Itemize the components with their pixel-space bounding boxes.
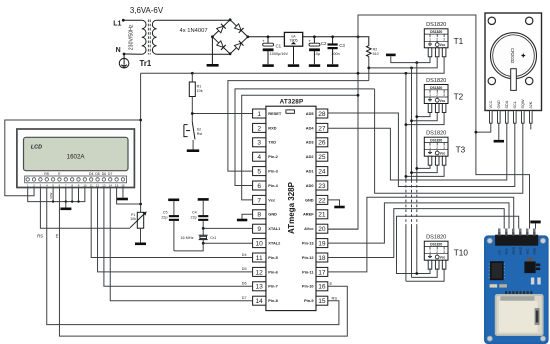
wire bridge minus to ground: [211, 37, 213, 64]
svg-text:12: 12: [256, 269, 264, 276]
label 230V/50Hz: [129, 24, 135, 50]
svg-text:DS1820: DS1820: [426, 235, 446, 241]
svg-text:DS1820: DS1820: [430, 30, 442, 34]
IC U1 ATmega328P body: [266, 106, 316, 310]
svg-text:8: 8: [257, 212, 261, 219]
svg-text:T10: T10: [454, 248, 469, 257]
svg-text:100n: 100n: [331, 52, 339, 56]
svg-text:MOSI: MOSI: [512, 247, 516, 255]
wire +5V down branch: [327, 37, 358, 229]
switch S2: [184, 122, 202, 149]
svg-text:MISO: MISO: [519, 246, 523, 254]
label T10: [454, 248, 469, 257]
svg-text:Pin-5: Pin-5: [268, 255, 278, 260]
pin 5 Pin-3: [253, 167, 279, 176]
svg-text:10k: 10k: [197, 89, 203, 93]
svg-text:19: 19: [318, 241, 326, 248]
svg-text:25: 25: [318, 154, 326, 161]
pin 14 Pin-8: [253, 296, 279, 305]
labels RS E below LCD: [37, 234, 58, 239]
svg-text:C1: C1: [276, 44, 282, 49]
junction dots power rail: [267, 35, 360, 38]
SD card module: [484, 229, 549, 344]
terminal N: [116, 47, 126, 55]
svg-text:AVcc: AVcc: [304, 226, 314, 231]
svg-text:3: 3: [257, 140, 261, 147]
wire SD pin4 to sensor GND bus: [397, 216, 519, 273]
svg-text:AD1: AD1: [306, 169, 315, 174]
svg-text:11: 11: [256, 255, 263, 262]
svg-text:AD0: AD0: [306, 183, 314, 188]
svg-text:RS: RS: [332, 295, 338, 300]
label T3: [456, 145, 466, 154]
wire +5V to LCD wrap: [139, 73, 142, 212]
svg-text:VCC: VCC: [489, 100, 493, 108]
svg-text:DS1820: DS1820: [426, 131, 446, 137]
svg-text:RS: RS: [44, 172, 49, 176]
pin 19 Pin-13: [302, 239, 328, 248]
wire secondary bottom to bridge: [157, 53, 231, 55]
wire pin 18 to SD pin1: [328, 209, 505, 258]
label E right: [330, 281, 333, 286]
label 3.6VA-6V: [130, 6, 164, 15]
svg-text:SQW: SQW: [521, 99, 525, 108]
svg-text:CR2032: CR2032: [510, 48, 515, 64]
sensor bus GND: [416, 63, 418, 274]
label C1: [270, 44, 289, 57]
svg-text:L1: L1: [113, 20, 121, 27]
svg-text:GND: GND: [268, 212, 277, 217]
capacitor C4: [191, 198, 209, 228]
svg-text:1: 1: [429, 146, 431, 150]
pin 4 Pin-2: [253, 152, 279, 161]
svg-text:6: 6: [257, 183, 261, 190]
svg-text:2: 2: [436, 146, 438, 150]
pin 17 Pin-11: [302, 267, 328, 276]
label T1: [454, 37, 464, 46]
svg-text:D5: D5: [242, 267, 247, 271]
wire SCL pin 28 to RTC: [328, 113, 515, 187]
svg-text:1: 1: [257, 111, 261, 118]
wire +5V main rail: [248, 37, 369, 46]
svg-text:GND: GND: [533, 247, 537, 255]
svg-text:C5: C5: [163, 210, 168, 214]
pin 3 TXD: [253, 138, 277, 147]
ground bar P1: [135, 243, 146, 246]
pin 23 AD0: [306, 181, 328, 190]
pin 20 AVcc: [304, 224, 328, 233]
svg-text:SDA: SDA: [505, 100, 509, 108]
svg-text:Pin-9: Pin-9: [304, 298, 314, 303]
wire primary bottom: [124, 53, 142, 55]
svg-text:Rst: Rst: [197, 132, 202, 136]
svg-text:1000µ/16V: 1000µ/16V: [270, 52, 289, 56]
svg-text:D6: D6: [242, 282, 247, 286]
resistor R1: [189, 73, 202, 122]
ground bar SD: [530, 221, 540, 229]
svg-text:22p: 22p: [191, 216, 197, 220]
terminal L1: [113, 19, 125, 28]
svg-text:Pin-3: Pin-3: [268, 169, 278, 174]
svg-text:E: E: [56, 234, 59, 239]
crystal Cr1: [199, 228, 208, 243]
svg-text:13: 13: [256, 284, 264, 291]
svg-text:Vcc: Vcc: [268, 197, 276, 202]
label Tr1: [140, 59, 152, 68]
wire SQW to RTC: [375, 89, 523, 193]
wire LCD backlight A: [117, 188, 141, 205]
pin 24 AD1: [306, 167, 328, 176]
svg-text:4: 4: [257, 154, 261, 161]
svg-text:Pin-12: Pin-12: [302, 255, 315, 260]
RTC module DS3231: [485, 13, 542, 123]
svg-text:AD4: AD4: [306, 125, 315, 130]
svg-text:3,6VA-6V: 3,6VA-6V: [130, 6, 164, 15]
svg-text:24: 24: [318, 169, 326, 176]
svg-text:10k: 10k: [130, 217, 136, 221]
svg-text:DS1820: DS1820: [430, 243, 442, 247]
wire GND row T1: [415, 57, 430, 64]
svg-text:10µ: 10µ: [314, 52, 321, 56]
wire XTAL2 node: [202, 242, 253, 245]
LCD module 1602A: [17, 129, 134, 188]
label T2: [454, 93, 464, 102]
capacitor C3: [328, 37, 338, 65]
svg-text:16 MHz: 16 MHz: [180, 236, 193, 240]
potentiometer P1: [130, 211, 147, 242]
svg-text:10: 10: [83, 184, 87, 188]
svg-text:D5: D5: [95, 172, 99, 176]
svg-text:GND: GND: [305, 197, 314, 202]
svg-text:T3: T3: [456, 145, 466, 154]
svg-text:15: 15: [318, 298, 326, 305]
ground bar 7805: [288, 64, 299, 67]
wire secondary top to bridge: [157, 19, 231, 21]
pin 8 GND: [253, 210, 278, 219]
label R/W: [49, 193, 53, 199]
ground bar RTC: [494, 140, 504, 143]
svg-text:23: 23: [318, 183, 326, 190]
transformer Tr1: [142, 20, 157, 55]
svg-text:T2: T2: [454, 93, 464, 102]
svg-text:XTAL2: XTAL2: [268, 241, 281, 246]
svg-text:2: 2: [436, 250, 438, 254]
wire D4: [91, 188, 252, 258]
svg-text:11: 11: [90, 184, 93, 188]
wire R1 to pin1: [191, 112, 253, 115]
svg-text:13: 13: [102, 184, 106, 188]
svg-text:XTAL1: XTAL1: [268, 226, 281, 231]
pin 15 Pin-9: [304, 296, 328, 305]
svg-text:1: 1: [429, 37, 431, 41]
svg-text:R/W: R/W: [49, 193, 53, 199]
regulator U1 7805: [284, 32, 302, 64]
svg-text:17: 17: [318, 269, 326, 276]
svg-text:RXD: RXD: [268, 125, 276, 130]
ground bar LCD K: [117, 198, 128, 201]
svg-text:Pin-7: Pin-7: [268, 284, 278, 289]
wire pin 16 E: [59, 188, 347, 337]
svg-text:3: 3: [443, 93, 445, 97]
svg-text:DS1820: DS1820: [426, 78, 446, 84]
wire primary top: [123, 19, 142, 21]
svg-text:22p: 22p: [161, 216, 167, 220]
svg-text:DS1820: DS1820: [426, 22, 446, 28]
wire LCD VO to P1: [40, 188, 130, 229]
pin 26 AD3: [306, 138, 328, 147]
pin 6 Pin-4: [253, 181, 279, 190]
svg-text:18: 18: [318, 255, 326, 262]
wire wrap to pin 5 DQ: [228, 81, 369, 172]
svg-text:2: 2: [436, 93, 438, 97]
svg-text:16: 16: [121, 184, 125, 188]
pin 9 XTAL1: [253, 224, 282, 233]
label AT328P: [280, 98, 304, 105]
svg-text:ATmega 328P: ATmega 328P: [287, 181, 296, 234]
wire D5: [98, 188, 253, 272]
svg-text:+: +: [262, 38, 265, 43]
capacitor C5: [161, 199, 179, 251]
svg-text:3: 3: [443, 250, 445, 254]
wire +5V top wrap to modules: [358, 15, 530, 229]
wire AVcc pin 20: [328, 228, 358, 230]
wire Vcc row T1: [405, 57, 445, 75]
svg-text:28: 28: [318, 111, 326, 118]
svg-text:Pin-8: Pin-8: [268, 298, 278, 303]
svg-text:C2: C2: [321, 41, 327, 46]
wire +5V rail B: [141, 72, 406, 74]
svg-text:T1: T1: [454, 37, 464, 46]
svg-text:DS1820: DS1820: [430, 139, 442, 143]
svg-text:Tr1: Tr1: [140, 59, 152, 68]
labels D4-D7 at IC: [242, 253, 247, 300]
label C3: [331, 43, 345, 56]
pin 11 Pin-5: [253, 253, 279, 262]
wire LCD VDD wrap: [5, 120, 141, 196]
label RS right: [332, 295, 338, 300]
wire D7: [110, 188, 252, 301]
svg-text:2: 2: [436, 37, 438, 41]
svg-text:3: 3: [443, 37, 445, 41]
svg-text:D7: D7: [242, 296, 247, 300]
label 16 MHz: [180, 236, 193, 240]
svg-text:Vcc: Vcc: [440, 256, 446, 260]
svg-text:20: 20: [318, 226, 326, 233]
pin 13 Pin-7: [253, 282, 278, 291]
svg-text:CS: CS: [498, 250, 502, 254]
svg-text:7: 7: [257, 197, 261, 204]
svg-text:16: 16: [318, 284, 326, 291]
resistor R2: [367, 46, 379, 57]
svg-text:D7: D7: [108, 172, 112, 176]
pin 25 AD2: [306, 152, 328, 161]
svg-text:Pin-6: Pin-6: [268, 269, 278, 274]
earth ground symbol: [119, 54, 129, 68]
wire LCD ground rail: [28, 188, 85, 208]
svg-text:C3: C3: [339, 43, 345, 48]
wire LCD backlight K: [122, 188, 124, 198]
svg-text:AD2: AD2: [306, 154, 315, 159]
capacitor C1: [262, 37, 274, 65]
svg-text:VCC: VCC: [526, 247, 530, 254]
ground bar C3: [327, 64, 338, 67]
pin 18 Pin-12: [302, 253, 328, 262]
svg-text:AREF: AREF: [303, 212, 314, 217]
svg-text:D4: D4: [242, 253, 247, 257]
label 4x 1N4007: [180, 28, 208, 34]
ground stub pin 8: [237, 214, 253, 221]
svg-text:Pin-4: Pin-4: [268, 183, 278, 188]
svg-text:21: 21: [318, 212, 326, 219]
svg-text:1602A: 1602A: [67, 154, 86, 161]
svg-text:1: 1: [429, 93, 431, 97]
svg-text:2: 2: [257, 125, 261, 132]
wire DQ row T1: [367, 57, 437, 69]
label Cr1: [210, 236, 216, 240]
wire RTC VCC tap: [475, 123, 491, 133]
svg-text:22: 22: [318, 197, 326, 204]
svg-text:Pin-2: Pin-2: [268, 154, 278, 159]
ground bar S2: [187, 149, 199, 152]
wire SDA pin 27 to RTC: [328, 123, 507, 180]
svg-text:LCD: LCD: [31, 144, 42, 150]
svg-text:D6: D6: [102, 172, 106, 176]
svg-text:C4: C4: [192, 210, 197, 214]
wire pin 17 to SD pin3: [328, 197, 514, 272]
bridge rectifier: [211, 18, 249, 55]
wire XTAL1 node: [202, 227, 253, 230]
wire RTC GND: [498, 123, 500, 140]
pin 1 RESET: [253, 109, 282, 118]
svg-text:SCL: SCL: [513, 101, 517, 108]
svg-text:7805: 7805: [289, 38, 297, 42]
pin 2 RXD: [253, 123, 277, 132]
svg-text:GND: GND: [497, 100, 501, 109]
svg-text:AT328P: AT328P: [280, 98, 304, 105]
svg-text:AD3: AD3: [306, 140, 315, 145]
wire rows T3: [405, 165, 445, 177]
svg-text:5: 5: [257, 169, 261, 176]
capacitor C2: [308, 37, 320, 65]
ground bar C1: [262, 64, 273, 67]
sensor bus Vcc: [405, 73, 407, 281]
wire wrap to pin 7 Vcc: [242, 94, 360, 200]
svg-text:TXD: TXD: [268, 140, 276, 145]
svg-text:DS1820: DS1820: [430, 86, 442, 90]
pin 10 XTAL2: [253, 239, 282, 248]
pin 21 AREF: [303, 210, 328, 219]
svg-text:14: 14: [256, 298, 264, 305]
svg-text:E: E: [330, 281, 333, 286]
svg-text:Vcc: Vcc: [440, 99, 446, 103]
ground bar sensors: [386, 54, 417, 63]
wire pin 19 to SD pin2: [328, 203, 509, 243]
pin 12 Pin-6: [253, 267, 279, 276]
sensor bus DQ: [411, 68, 413, 278]
svg-text:Pin-13: Pin-13: [302, 241, 315, 246]
pin 7 Vcc: [253, 195, 276, 204]
svg-text:RESET: RESET: [268, 111, 282, 116]
wire RTC 32K stub: [530, 123, 532, 129]
pin 22 GND: [305, 195, 328, 204]
ground stub pin 22: [328, 200, 345, 208]
ground bar LCD rail: [60, 208, 71, 211]
svg-text:+: +: [308, 38, 311, 43]
junction dots rail B: [191, 72, 359, 75]
svg-text:15: 15: [115, 184, 119, 188]
svg-text:510: 510: [373, 52, 379, 56]
ground bar C2: [309, 64, 320, 67]
svg-text:Vcc: Vcc: [440, 43, 446, 47]
svg-text:Pin-10: Pin-10: [302, 284, 314, 289]
label C2: [314, 41, 327, 56]
svg-text:14: 14: [109, 184, 113, 188]
svg-text:R1: R1: [197, 85, 202, 89]
svg-text:230V/50Hz: 230V/50Hz: [129, 24, 135, 50]
pin 27 AD4: [306, 123, 328, 132]
svg-text:D4: D4: [89, 172, 93, 176]
wire R2 to DQ node: [368, 57, 370, 81]
wire C5 to XTAL2: [174, 243, 203, 251]
wire rows T2: [405, 113, 445, 126]
wire rows T10: [406, 268, 444, 281]
wire wrap to pin 6 SQW: [235, 89, 375, 186]
pin 28 AD5: [306, 109, 328, 118]
svg-text:26: 26: [318, 140, 326, 147]
svg-text:Vcc: Vcc: [440, 152, 446, 156]
svg-text:1: 1: [429, 250, 431, 254]
svg-text:27: 27: [318, 125, 326, 132]
svg-text:SCK: SCK: [505, 248, 509, 254]
svg-text:Pin-11: Pin-11: [302, 269, 314, 274]
wire pin 15 RS: [47, 188, 339, 325]
svg-text:9: 9: [257, 226, 261, 233]
svg-text:N: N: [116, 47, 121, 54]
label LCD RS E D4-D7: [44, 172, 112, 176]
svg-text:4x 1N4007: 4x 1N4007: [180, 28, 208, 34]
svg-text:AD5: AD5: [306, 111, 315, 116]
ground bar bridge: [207, 64, 219, 67]
svg-text:Cr1: Cr1: [210, 236, 216, 240]
svg-text:3: 3: [443, 146, 445, 150]
wire D6: [104, 188, 253, 287]
svg-text:12: 12: [96, 184, 100, 188]
svg-text:10: 10: [256, 241, 264, 248]
pin 16 Pin-10: [302, 282, 328, 291]
svg-text:32K: 32K: [529, 101, 533, 108]
svg-text:RS: RS: [37, 234, 43, 239]
